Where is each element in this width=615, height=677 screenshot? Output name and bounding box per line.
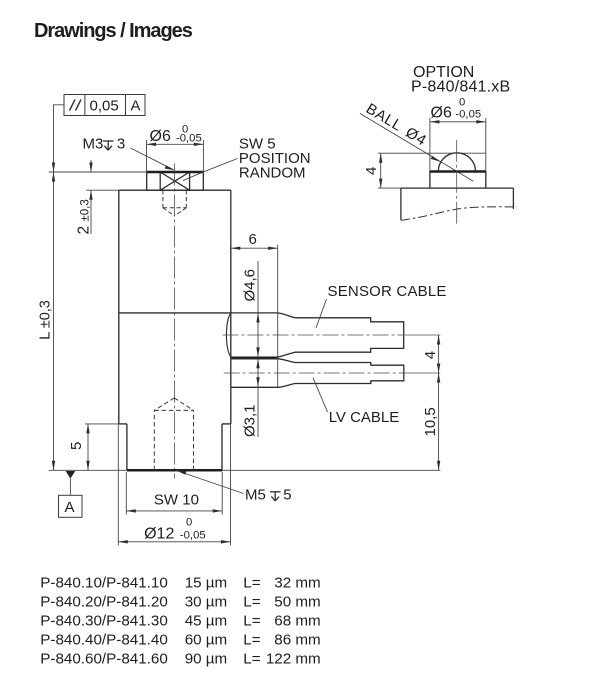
svg-text:122 mm: 122 mm: [266, 650, 321, 667]
body outline: [119, 190, 231, 470]
svg-text:Ø12: Ø12: [144, 526, 174, 543]
svg-text:LV CABLE: LV CABLE: [329, 409, 400, 426]
top plate (option): [430, 172, 486, 189]
main centerline: [174, 164, 176, 479]
dimension Ø3,1: [257, 359, 259, 437]
dimension 2 ±0,3: [90, 160, 92, 172]
LV cable centerline: [224, 372, 412, 374]
sensor gland arc: [226, 313, 230, 357]
svg-text:P-840.40/P-841.40: P-840.40/P-841.40: [40, 631, 168, 648]
svg-text:4: 4: [422, 351, 439, 359]
dimension SW 10: [126, 510, 222, 512]
hex nut top piece SW5: [147, 172, 204, 190]
svg-text:86 mm: 86 mm: [274, 631, 320, 648]
svg-text:Ø4,6: Ø4,6: [242, 269, 259, 302]
svg-text:Ø6: Ø6: [431, 105, 452, 122]
frame leader: [54, 105, 65, 172]
leader sensor cable: [316, 299, 327, 328]
svg-text:L=: L=: [243, 612, 260, 629]
dimension Ø6 top (main view): [147, 143, 204, 145]
svg-text:68 mm: 68 mm: [274, 612, 320, 629]
svg-text:L=: L=: [243, 650, 260, 667]
svg-text:30 µm: 30 µm: [185, 593, 228, 610]
svg-text:5: 5: [68, 442, 85, 450]
M5 threaded hole (hidden): [154, 398, 193, 470]
svg-text:0,05: 0,05: [90, 98, 119, 115]
svg-text:45 µm: 45 µm: [185, 612, 228, 629]
datum A: [66, 471, 76, 479]
svg-text:M3: M3: [83, 136, 104, 153]
svg-text:SENSOR CABLE: SENSOR CABLE: [328, 283, 447, 300]
svg-text:P-840.60/P-841.60: P-840.60/P-841.60: [40, 650, 168, 667]
dimension 4 (option): [380, 153, 382, 188]
dimension Ø4,6: [257, 261, 259, 357]
leader SW5: [183, 159, 238, 181]
svg-text:SW 10: SW 10: [154, 491, 199, 508]
svg-text:60 µm: 60 µm: [185, 631, 228, 648]
svg-text:4: 4: [363, 167, 380, 175]
svg-text:10,5: 10,5: [422, 407, 439, 436]
M3 threaded hole (hidden): [163, 190, 186, 216]
extension line bottom face: [49, 469, 441, 471]
option base block with break line: [401, 188, 514, 220]
svg-text:P-840.10/P-841.10: P-840.10/P-841.10: [40, 574, 168, 591]
sensor cable: [231, 313, 404, 357]
svg-text:-0,05: -0,05: [180, 530, 206, 542]
dimension Ø6 (option): [430, 121, 486, 123]
svg-text:Ø6: Ø6: [150, 128, 171, 145]
svg-text:A: A: [131, 98, 141, 115]
leader LV cable: [313, 378, 328, 412]
svg-text:P-840.20/P-841.20: P-840.20/P-841.20: [40, 593, 168, 610]
svg-text:L ±0,3: L ±0,3: [38, 300, 54, 340]
svg-text:5: 5: [283, 487, 291, 504]
svg-text:M5: M5: [245, 487, 266, 504]
dimension 4 (cables): [438, 335, 440, 373]
label BALL Ø4 with leader: [363, 100, 429, 149]
svg-text:-0,05: -0,05: [176, 133, 202, 145]
svg-text:3: 3: [117, 136, 125, 153]
sensor cable centerline: [223, 334, 413, 336]
bottom face thick: [127, 469, 222, 472]
svg-text:A: A: [65, 499, 75, 516]
svg-text:0: 0: [186, 517, 192, 529]
dimension 6 (cable boot): [231, 247, 278, 249]
dimension 10,5: [438, 373, 440, 470]
svg-text:Drawings / Images: Drawings / Images: [34, 20, 193, 42]
svg-text:P-840.30/P-841.30: P-840.30/P-841.30: [40, 612, 168, 629]
svg-text:50 mm: 50 mm: [274, 593, 320, 610]
svg-text:L=: L=: [243, 593, 260, 610]
svg-text:90 µm: 90 µm: [185, 650, 228, 667]
boots contact thick line: [231, 356, 278, 359]
svg-text:-0,05: -0,05: [455, 109, 481, 121]
dimension 5: [87, 424, 89, 470]
svg-text:6: 6: [249, 231, 257, 248]
feature control frame: [64, 95, 145, 116]
svg-text:L=: L=: [243, 574, 260, 591]
svg-text:L=: L=: [243, 631, 260, 648]
svg-text:P-840/841.xB: P-840/841.xB: [411, 79, 510, 96]
dimension Ø12: [118, 541, 230, 543]
svg-text:Ø3,1: Ø3,1: [242, 404, 259, 437]
ball: [438, 153, 475, 172]
extension line top (hex top level): [49, 171, 147, 173]
plate top thick edge: [430, 170, 486, 173]
svg-text:0: 0: [459, 97, 465, 109]
leader M5: [177, 471, 244, 494]
dimension L ±0,3: [53, 172, 55, 470]
leader M3: [131, 148, 174, 170]
hex top thick edge: [147, 171, 204, 173]
svg-text:RANDOM: RANDOM: [239, 165, 306, 182]
option centerline: [456, 140, 458, 226]
svg-text:15 µm: 15 µm: [185, 574, 228, 591]
svg-text:32 mm: 32 mm: [274, 574, 320, 591]
LV cable: [231, 359, 404, 388]
